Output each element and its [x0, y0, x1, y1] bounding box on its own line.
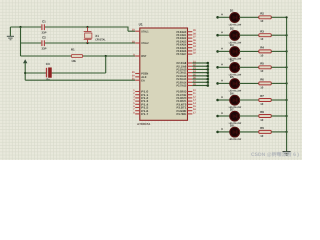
pin 22 P2.1/A9 (right)	[177, 64, 197, 69]
pin 31 EA (left)	[132, 78, 145, 83]
svg-text:D2: D2	[230, 27, 234, 31]
pin 12 P3.2/INT0 (right)	[177, 95, 197, 100]
pin 13 P3.3/INT1 (right)	[177, 99, 197, 104]
svg-text:XTAL2: XTAL2	[141, 41, 149, 45]
wire: resistor R4 to bus	[271, 50, 286, 52]
pin 33 P0.6/AD6 (right)	[177, 48, 197, 53]
node: start of LED row 6	[216, 96, 223, 101]
node: bus junction row 5	[286, 82, 288, 84]
svg-text:AT89C51: AT89C51	[137, 122, 151, 126]
pin 29 PSEN (left)	[132, 71, 148, 76]
svg-text:10: 10	[260, 85, 264, 89]
wire: P2.1 rung	[192, 65, 209, 68]
svg-text:LED-YELLOW: LED-YELLOW	[229, 138, 242, 141]
pin 26 P2.5/A13 (right)	[177, 77, 197, 82]
pin 3 P1.2 (left)	[133, 95, 149, 100]
resistor R9 10	[259, 126, 272, 138]
pin 14 P3.4/T0 (right)	[177, 102, 197, 107]
capacitor C2 33P	[42, 36, 47, 51]
node: crystal bottom junction	[86, 42, 88, 44]
pin 1 P1.0 (left)	[133, 89, 149, 94]
node: start of LED row 7	[216, 112, 223, 117]
svg-text:C1: C1	[42, 20, 46, 24]
svg-text:10: 10	[260, 69, 264, 73]
svg-text:CRYSTAL: CRYSTAL	[95, 39, 106, 42]
pin 4 P1.3 (left)	[133, 99, 149, 104]
wire: row 7 left segment	[218, 115, 231, 117]
wire: XTAL1 net top (y=27)	[10, 27, 135, 32]
pin 18 XTAL2 (left)	[132, 41, 149, 46]
LED D8 LED-YELLOW	[229, 123, 242, 141]
svg-text:P3.7/RD: P3.7/RD	[177, 112, 187, 116]
node: crystal top junction	[86, 26, 88, 28]
resistor R2 10	[259, 11, 272, 23]
svg-text:10: 10	[260, 118, 264, 122]
wire: right ground bus	[286, 16, 288, 151]
node: start of LED row 5	[216, 80, 223, 85]
pin 9 RST (left)	[133, 54, 147, 59]
svg-text:33P: 33P	[42, 31, 47, 35]
wire: resistor R9 to bus	[271, 131, 286, 133]
wire: P2.6 rung	[192, 81, 209, 84]
node: bus junction row 8	[286, 131, 288, 133]
svg-text:D3: D3	[230, 43, 234, 47]
svg-text:D8: D8	[230, 123, 234, 127]
wire: P2.4 rung	[192, 75, 209, 78]
svg-text:33P: 33P	[42, 47, 47, 51]
node: bus junction row 4	[286, 66, 288, 68]
svg-text:P2.7/A15: P2.7/A15	[177, 84, 187, 88]
resistor R1 10k	[71, 48, 83, 63]
pin 5 P1.4 (left)	[133, 102, 149, 107]
svg-text:10: 10	[260, 134, 264, 138]
wire: EA net (y=80)	[25, 79, 135, 81]
LED D3 LED-YELLOW	[229, 43, 242, 61]
wire: LED D4 to resistor	[239, 66, 258, 68]
svg-text:D7: D7	[230, 107, 234, 111]
svg-text:R7: R7	[260, 94, 264, 98]
wire: fan bundle vertical	[207, 63, 209, 87]
svg-text:CSDN @树莓派哲 6 ): CSDN @树莓派哲 6 )	[251, 151, 299, 158]
resistor R4 10	[259, 46, 272, 58]
svg-text:10: 10	[260, 19, 264, 23]
node: bus junction row 3	[286, 50, 288, 52]
pin 32 P0.7/AD7 (right)	[177, 52, 197, 57]
node: start of LED row 1	[216, 14, 223, 19]
wire: LED D1 to resistor	[239, 16, 258, 18]
pin 28 P2.7/A15 (right)	[177, 83, 197, 88]
svg-text:D5: D5	[230, 75, 234, 79]
pin 27 P2.6/A14 (right)	[177, 80, 197, 85]
pin 2 P1.1 (left)	[133, 92, 149, 97]
pin 7 P1.6 (left)	[133, 108, 149, 113]
pin 25 P2.4/A12 (right)	[177, 73, 197, 78]
pin 35 P0.4/AD4 (right)	[177, 42, 197, 47]
pin 6 P1.5 (left)	[133, 105, 149, 110]
wire: row 2 left segment	[218, 34, 231, 36]
wire: LED D3 to resistor	[239, 50, 258, 52]
svg-text:D4: D4	[230, 59, 234, 63]
pin 17 P3.7/RD (right)	[177, 111, 197, 116]
capacitor C1 33P	[42, 20, 47, 35]
power VCC arrow	[23, 59, 27, 80]
pin 8 P1.7 (left)	[133, 111, 149, 116]
wire: LED D6 to resistor	[239, 99, 258, 101]
pin 36 P0.3/AD3 (right)	[177, 39, 197, 44]
resistor R7 10	[259, 94, 272, 106]
watermark CSDN	[251, 151, 299, 158]
wire: row 4 left segment	[218, 66, 231, 68]
LED D6 LED-YELLOW	[229, 91, 242, 109]
pin 11 P3.1/TXD (right)	[177, 92, 197, 97]
pin 30 ALE (left)	[132, 74, 147, 79]
wire: row 6 left segment	[218, 99, 231, 101]
wire: resistor R3 to bus	[271, 34, 286, 36]
svg-text:P0.7/AD7: P0.7/AD7	[177, 52, 187, 56]
wire: resistor R5 to bus	[271, 66, 286, 68]
crystal X1	[84, 27, 106, 43]
wire: P2.0 rung	[192, 62, 209, 65]
svg-text:R2: R2	[260, 11, 264, 15]
node: junction VCC rail / C3 wire	[24, 72, 26, 74]
resistor R3 10	[259, 29, 272, 41]
pin 16 P3.6/WR (right)	[177, 108, 197, 113]
wire: row 1 left segment	[218, 16, 231, 18]
wire: XTAL2 net (y=43)	[21, 42, 136, 44]
svg-text:10: 10	[260, 53, 264, 57]
svg-text:U1: U1	[139, 23, 143, 27]
node: bus junction row 2	[286, 34, 288, 36]
pin 24 P2.3/A11 (right)	[177, 70, 197, 75]
pin 38 P0.1/AD1 (right)	[177, 32, 197, 37]
wire: row 5 left segment	[218, 82, 231, 84]
svg-text:R3: R3	[260, 29, 264, 33]
wire: resistor R6 to bus	[271, 82, 286, 84]
svg-text:R1: R1	[71, 48, 75, 52]
svg-text:X1: X1	[95, 34, 99, 38]
resistor R8 10	[259, 110, 272, 122]
pin 15 P3.5/T1 (right)	[177, 105, 197, 110]
wire: LED D7 to resistor	[239, 115, 258, 117]
svg-text:D6: D6	[230, 91, 234, 95]
pin 23 P2.2/A10 (right)	[177, 67, 197, 72]
wire: LED D5 to resistor	[239, 82, 258, 84]
svg-text:D1: D1	[230, 9, 234, 13]
svg-text:10k: 10k	[71, 59, 76, 63]
svg-text:10: 10	[260, 37, 264, 41]
LED D1 LED-YELLOW	[229, 9, 242, 27]
svg-text:R8: R8	[260, 110, 264, 114]
node: bus junction row 7	[286, 115, 288, 117]
LED D5 LED-YELLOW	[229, 75, 242, 93]
node: junction gnd rail / top wire	[19, 26, 21, 28]
pin 34 P0.5/AD5 (right)	[177, 45, 197, 50]
wire: resistor R7 to bus	[271, 99, 286, 101]
wire: P2.7 rung	[192, 84, 209, 87]
wire: resistor R2 to bus	[271, 16, 286, 18]
pin 37 P0.2/AD2 (right)	[177, 36, 197, 41]
LED D4 LED-YELLOW	[229, 59, 242, 77]
node: start of LED row 2	[216, 32, 223, 37]
wire: LED D2 to resistor	[239, 34, 258, 36]
resistor R5 10	[259, 61, 272, 73]
IC U1 AT89C51	[137, 23, 188, 126]
svg-text:RST: RST	[141, 54, 147, 58]
node: junction RST / C3 branch	[105, 55, 107, 57]
wire: P2.5 rung	[192, 78, 209, 81]
wire: C3 branch (y=73)	[25, 56, 106, 73]
svg-text:R9: R9	[260, 126, 264, 130]
node: bus junction row 6	[286, 99, 288, 101]
svg-text:EA: EA	[141, 78, 145, 82]
svg-text:10: 10	[260, 102, 264, 106]
wire: LED D8 to resistor	[239, 131, 258, 133]
wire: resistor R8 to bus	[271, 115, 286, 117]
svg-text:XTAL1: XTAL1	[141, 29, 149, 33]
wire: P2.2 rung	[192, 68, 209, 71]
LED D2 LED-YELLOW	[229, 27, 242, 45]
wire: row 3 left segment	[218, 50, 231, 52]
svg-text:C3: C3	[46, 62, 50, 66]
capacitor C3 (electrolytic)	[46, 62, 52, 81]
wire: ground rail (x=20.5)	[20, 27, 22, 56]
svg-text:R4: R4	[260, 46, 264, 50]
svg-text:P1.7: P1.7	[141, 112, 149, 116]
LED D7 LED-YELLOW	[229, 107, 242, 125]
node: start of LED row 4	[216, 64, 223, 69]
svg-text:C2: C2	[42, 36, 46, 40]
pin 10 P3.0/RXD (right)	[177, 89, 197, 94]
node: start of LED row 3	[216, 48, 223, 53]
wire: RST net (y=56)	[21, 55, 136, 57]
ground (left, crystal circuit)	[7, 27, 14, 40]
ground (bus bottom)	[283, 152, 291, 156]
wire: row 8 left segment	[218, 131, 231, 133]
pin 21 P2.0/A8 (right)	[177, 61, 197, 66]
node: start of LED row 8	[216, 128, 223, 133]
pin 19 XTAL1 (left)	[132, 29, 149, 34]
resistor R6 10	[259, 78, 272, 90]
svg-text:R5: R5	[260, 61, 264, 65]
svg-text:R6: R6	[260, 78, 264, 82]
pin 39 P0.0/AD0 (right)	[177, 29, 197, 34]
wire: P2.3 rung	[192, 71, 209, 74]
